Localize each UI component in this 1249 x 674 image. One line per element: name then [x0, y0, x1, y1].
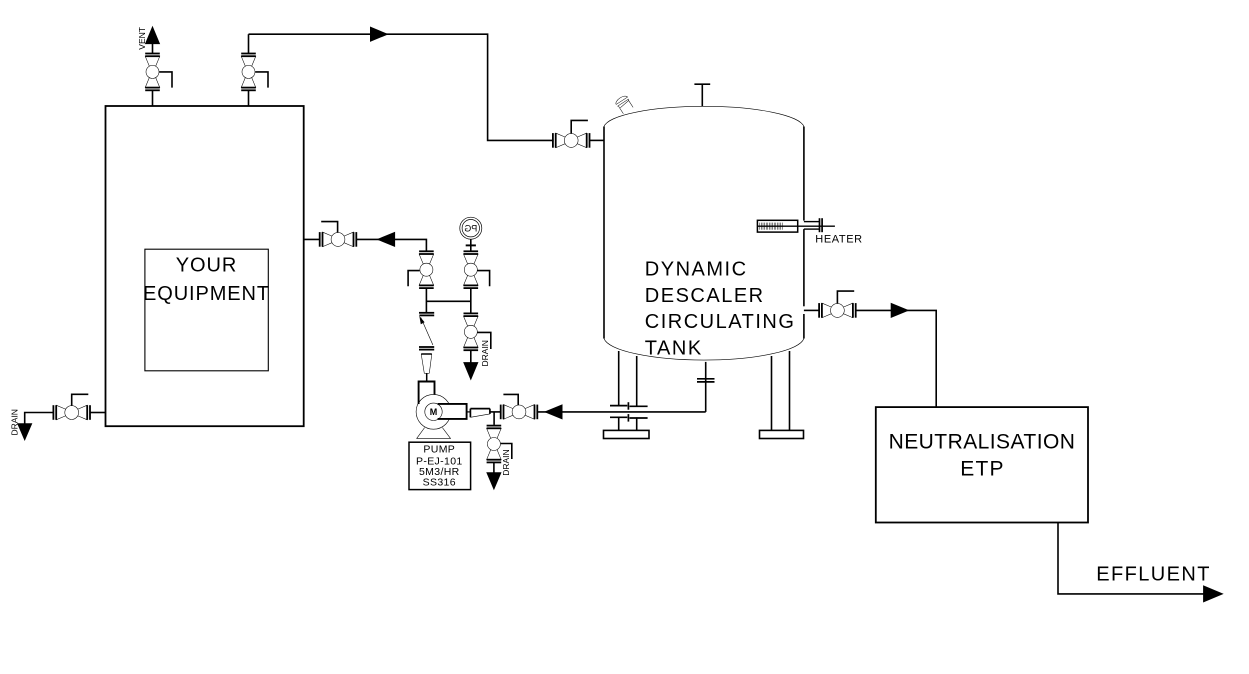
heater nozzle stubs	[804, 221, 820, 223]
wire V6 down leg	[425, 288, 427, 313]
valve D1 handle	[478, 332, 491, 349]
valve V2 equipment top valve	[241, 54, 256, 91]
tank right wall (with nozzle gaps)	[803, 127, 805, 221]
svg-text:VENT: VENT	[137, 27, 147, 50]
drain arrow down (equipment)	[18, 424, 32, 440]
valve V2 handle	[255, 72, 268, 88]
valve D1 branch drain valve	[464, 313, 479, 350]
flow arrow left to pump	[545, 405, 562, 419]
pump discharge casing	[438, 404, 467, 419]
wire outlet to ETP	[856, 310, 937, 407]
discharge eccentric reducer	[470, 408, 490, 410]
valve V3 tank inlet valve	[553, 133, 590, 148]
valve V4 handle	[837, 291, 854, 304]
svg-text:ETP: ETP	[960, 458, 1004, 481]
gauge root tick	[466, 244, 476, 246]
check valve flapper	[421, 318, 433, 346]
tank leg right foot	[760, 430, 804, 438]
union joint at leg crossing	[610, 402, 648, 421]
flow arrow right to ETP	[891, 304, 908, 318]
wire reducer to V8	[490, 411, 501, 413]
wire tee down to D2	[493, 412, 495, 425]
tank outlet pipe	[804, 309, 819, 311]
wire gauge stem	[470, 239, 472, 251]
wire ETP outlet to effluent	[1058, 523, 1205, 594]
wire drain to arrow	[25, 413, 54, 425]
flow arrow right effluent	[1204, 586, 1223, 602]
valve V8 handle	[503, 394, 518, 405]
pump P-EJ-101 suction casing	[419, 382, 435, 405]
svg-text:M: M	[430, 407, 438, 417]
wire equipment return pipe	[304, 238, 320, 240]
wire return pipe to manifold	[356, 239, 426, 251]
valve V4 tank outlet valve	[819, 303, 856, 318]
flange pair below check valve	[419, 346, 434, 348]
valve V7 handle	[478, 271, 490, 287]
wire manifold cross line	[426, 300, 470, 302]
svg-text:YOUR: YOUR	[176, 255, 237, 277]
pressure gauge PG	[460, 217, 482, 239]
valve D2 handle	[501, 444, 512, 460]
heater centerline	[757, 225, 835, 227]
tank left wall	[603, 127, 605, 339]
svg-text:HEATER: HEATER	[815, 234, 862, 246]
svg-text:PUMP: PUMP	[423, 443, 455, 455]
tank top dome	[604, 106, 804, 126]
flow arrow left on return pipe	[378, 233, 395, 247]
svg-text:TANK: TANK	[645, 338, 703, 360]
tank top nozzle	[701, 84, 703, 106]
svg-text:EFFLUENT: EFFLUENT	[1096, 564, 1211, 586]
svg-text:DRAIN: DRAIN	[480, 340, 490, 366]
valve V7 right branch valve	[464, 251, 479, 288]
svg-text:NEUTRALISATION: NEUTRALISATION	[889, 430, 1076, 453]
heater element body	[757, 220, 797, 232]
heater coil hatch	[760, 223, 782, 230]
pump label box	[409, 442, 471, 489]
bottom nozzle flange	[697, 378, 715, 380]
wire V2 to equipment top	[248, 90, 250, 106]
valve D2 discharge drain valve	[487, 426, 502, 463]
flow arrow right on top header	[371, 27, 388, 41]
drain arrow down D2	[487, 473, 501, 489]
wire V2 up to top header	[248, 34, 250, 53]
svg-text:DESCALER: DESCALER	[645, 285, 765, 307]
valve V6 handle	[408, 271, 420, 287]
drain line from equipment left wall	[90, 412, 106, 414]
equipment tank YOUR EQUIPMENT	[106, 106, 304, 426]
svg-text:DRAIN: DRAIN	[501, 449, 511, 475]
wire D1 to drain arrow	[470, 350, 472, 363]
valve V8 pump suction line valve	[501, 405, 538, 420]
valve D-left equipment drain valve	[53, 405, 90, 420]
drain arrow down D1	[464, 363, 478, 380]
vent arrow	[146, 27, 160, 44]
wire V1 to equipment top	[152, 90, 154, 106]
flange pair above check valve	[419, 312, 434, 314]
tank leg left	[618, 351, 620, 406]
tank bottom nozzle	[705, 362, 707, 412]
wire top header to tank	[249, 34, 554, 140]
valve V3 handle	[571, 120, 588, 133]
valve V6 left branch valve	[419, 251, 434, 288]
svg-text:DYNAMIC: DYNAMIC	[645, 258, 748, 280]
valve V1 vent valve	[145, 54, 160, 91]
wire V7 down leg	[470, 288, 472, 313]
wire pump discharge	[467, 411, 471, 413]
valve V5 handle	[321, 222, 337, 233]
inner label box	[145, 249, 268, 371]
wire V3 to tank wall	[590, 139, 605, 141]
svg-text:EQUIPMENT: EQUIPMENT	[143, 283, 270, 305]
pump base	[417, 428, 425, 439]
tank leg right	[771, 356, 773, 430]
wire V8 to tank bottom line	[537, 411, 705, 413]
svg-text:PG: PG	[464, 223, 477, 233]
angled nozzle on dome	[614, 94, 634, 114]
pump volute circle	[416, 394, 451, 429]
pump motor circle	[425, 403, 442, 420]
wire vent stem	[152, 43, 154, 54]
valve D-left handle	[72, 394, 89, 405]
valve V1 handle	[159, 72, 172, 88]
wire D2 to drain arrow	[493, 462, 495, 473]
svg-text:SS316: SS316	[423, 477, 456, 489]
reducer cone to pump	[421, 353, 432, 355]
box NEUTRALISATION ETP	[876, 407, 1088, 522]
heater flange	[819, 218, 821, 232]
valve V5 equipment return valve	[320, 232, 357, 247]
tank leg left foot	[604, 430, 650, 438]
wire reducer to pump suction	[426, 373, 428, 381]
svg-text:DRAIN: DRAIN	[9, 409, 19, 435]
svg-text:CIRCULATING: CIRCULATING	[645, 311, 796, 333]
tank bottom dome	[604, 339, 804, 361]
